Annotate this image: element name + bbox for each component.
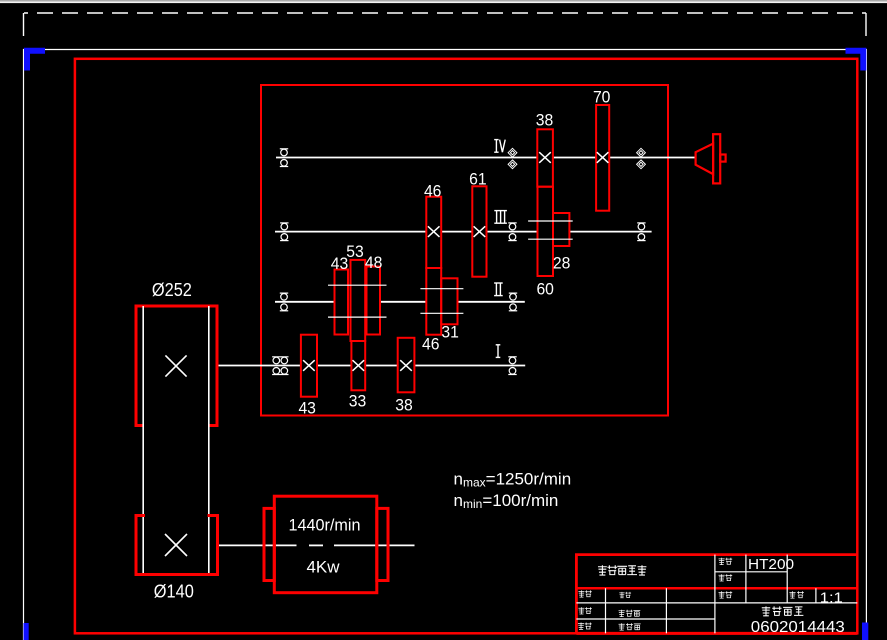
gear Z46 on shaft III [426, 197, 441, 268]
title label reviewer (shen cha) [578, 623, 592, 630]
title label material (cai liao) [719, 558, 733, 565]
gear Z33 on shaft I [351, 341, 365, 390]
paper boundary dashed left stub [23, 13, 25, 47]
svg-text:Ø252: Ø252 [152, 280, 192, 300]
svg-text:Ø140: Ø140 [154, 582, 194, 602]
pulley D140 rim [136, 516, 218, 575]
gear Z43 sliding on shaft II [335, 270, 349, 335]
title block bottom red edge [576, 632, 857, 635]
bearing shaft I left (double) [272, 357, 288, 375]
gear Z53 sliding on shaft II [351, 260, 366, 341]
output coupling cone [696, 144, 714, 175]
bearing shaft I right [508, 357, 516, 375]
svg-text:38: 38 [536, 111, 554, 130]
svg-text:48: 48 [365, 253, 383, 272]
pulley D252 rim [136, 306, 217, 426]
pitch lines of III-IV gear pair [528, 221, 573, 239]
blue corner mark bottom-left [24, 623, 29, 640]
gear Z38 on shaft IV [537, 129, 553, 186]
svg-text:46: 46 [424, 182, 442, 201]
title label scale (bi li) [789, 591, 803, 598]
svg-text:43: 43 [298, 399, 316, 418]
paper boundary dashed right stub [865, 13, 867, 47]
bearing shaft III middle [508, 223, 516, 241]
bearing shaft IV far left [280, 149, 288, 167]
title block white grid lines [576, 555, 857, 634]
bearing shaft II right [509, 293, 517, 311]
gear Z70 on shaft IV [596, 105, 609, 211]
output coupling flange [713, 134, 720, 183]
motor body [274, 496, 377, 593]
bearing shaft II left [280, 293, 288, 311]
title label advisor (zhi dao) [578, 607, 591, 614]
pulley D140 hub cross [165, 534, 187, 556]
svg-text:53: 53 [346, 242, 364, 261]
svg-text:60: 60 [536, 279, 554, 298]
title label weight (zhong liang) [719, 591, 733, 598]
title block outer red lines [576, 555, 857, 634]
title block red divider [576, 587, 857, 590]
shaft IV label [494, 140, 505, 153]
svg-text:31: 31 [441, 323, 459, 342]
svg-text:1:1: 1:1 [820, 589, 843, 606]
svg-text:4Kw: 4Kw [307, 557, 341, 576]
svg-text:46: 46 [422, 334, 440, 353]
title label drafter (zhi tu) [578, 590, 591, 597]
svg-text:HT200: HT200 [748, 556, 794, 573]
pulley D252 hub cross [165, 355, 186, 376]
svg-text:28: 28 [553, 254, 571, 273]
bearing shaft III right [637, 223, 645, 241]
diamond bearing shaft IV right [637, 148, 646, 168]
title label piece count (jian shu) [719, 574, 733, 581]
belt lines [143, 306, 209, 575]
paper boundary dashed top line [24, 12, 866, 14]
shaft II centerline [275, 301, 525, 303]
svg-text:33: 33 [349, 392, 367, 411]
title text drawing name (chuan dong xi tong tu) [598, 565, 646, 575]
motor shaft centerline [218, 544, 415, 546]
diamond bearing shaft IV left [508, 148, 517, 168]
gear Z31 sliding on shaft II [441, 278, 457, 324]
shaft III label [494, 211, 507, 224]
gearbox housing box [261, 85, 668, 416]
shaft I centerline [218, 365, 526, 367]
blue corner mark top-left [27, 51, 45, 71]
bearing shaft III left [280, 223, 288, 241]
gear Z43 on shaft I [301, 335, 317, 397]
gear Z48 sliding on shaft II [367, 267, 381, 335]
school name (zhong bei da xue) [762, 606, 804, 615]
pitch lines of I-II gear cluster [328, 285, 387, 317]
gear Z60 sliding on shaft III [538, 187, 554, 276]
svg-text:1440r/min: 1440r/min [289, 516, 361, 535]
gear Z28 sliding on shaft III [553, 213, 569, 246]
svg-text:0602014443: 0602014443 [751, 619, 845, 636]
blue corner mark top-right [846, 51, 864, 71]
gear Z38 on shaft I [398, 338, 415, 393]
svg-text:61: 61 [469, 170, 487, 189]
blue corner mark bottom-right [862, 623, 868, 640]
shaft II label [494, 283, 503, 296]
gear Z46 sliding on shaft II [426, 268, 441, 335]
shaft IV centerline [276, 157, 696, 159]
top window edge gray strip [0, 0, 887, 2]
svg-text:38: 38 [395, 396, 413, 415]
gear Z61 on shaft III [472, 186, 486, 276]
svg-text:70: 70 [593, 88, 611, 107]
shaft III centerline [275, 231, 652, 233]
motor left flange [264, 508, 274, 580]
motor right flange [377, 508, 388, 580]
output coupling stub [720, 155, 725, 162]
reviewer name (zeng zhi qiang) [619, 623, 641, 630]
advisor name (zeng zhi qiang) [619, 610, 641, 617]
drafter name (yang yang) [619, 592, 631, 598]
shaft I label [496, 345, 501, 358]
pitch lines of II-III gear pair [420, 289, 463, 314]
drawing red border frame [75, 59, 857, 634]
